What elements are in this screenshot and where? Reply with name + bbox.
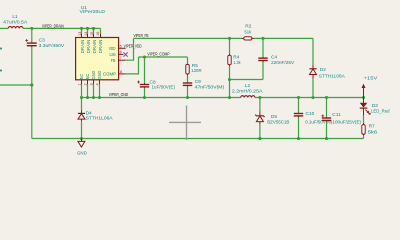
junction rail pin2 — [86, 96, 89, 99]
svg-text:8: 8 — [120, 70, 122, 74]
pin LIM right side — [119, 53, 124, 55]
wire COMP corner down to R5 — [187, 57, 189, 64]
capacitor C9 — [183, 82, 192, 87]
junction C8 top — [143, 55, 146, 58]
junction rail C10 — [297, 96, 300, 99]
inductor L2 — [241, 96, 255, 98]
capacitor C4 — [258, 57, 267, 62]
svg-text:DRAIN: DRAIN — [80, 40, 85, 54]
wire C8 bottom to rail — [144, 88, 146, 97]
wire D4 bottom to bottom rail — [81, 121, 83, 138]
junction C11 bottom rail — [325, 137, 328, 140]
op-amp U1 VIPer26LD body — [76, 38, 119, 80]
wire bottom pin 3 to rail — [93, 84, 95, 98]
wire C11 bottom to bottom rail — [326, 122, 328, 139]
wire C3 top — [31, 28, 33, 41]
svg-text:NC: NC — [79, 74, 84, 80]
wire D2 column upper — [312, 38, 314, 64]
svg-text:47uH/0.5A: 47uH/0.5A — [3, 20, 28, 26]
svg-text:2.2mH/0.25A: 2.2mH/0.25A — [232, 89, 263, 95]
svg-text:C9: C9 — [195, 79, 201, 85]
wire R7 bottom to bottom rail — [363, 136, 365, 139]
svg-text:VIPER_DRAIN: VIPER_DRAIN — [42, 23, 64, 28]
pin numbers top pins — [78, 32, 100, 36]
svg-text:GND: GND — [97, 71, 102, 80]
svg-text:100uF/25V(E): 100uF/25V(E) — [332, 120, 361, 126]
junction rail D5 — [258, 96, 261, 99]
diode D4 — [78, 111, 85, 122]
wire C4 bottom — [262, 62, 264, 80]
resistor R4 — [228, 54, 231, 67]
svg-text:COMP: COMP — [103, 72, 116, 77]
svg-text:47nF/50V(M): 47nF/50V(M) — [195, 84, 225, 90]
wire R2 right to D2 corner — [254, 37, 313, 39]
svg-text:LED_Red: LED_Red — [371, 109, 390, 115]
junction rail C9 — [186, 96, 189, 99]
pin stubs top DRAIN pins — [82, 34, 101, 38]
wire VIPER_DRAIN bus — [23, 27, 101, 29]
svg-text:STTH1L06A: STTH1L06A — [86, 115, 114, 121]
LED D3 — [360, 98, 370, 116]
svg-text:R7: R7 — [369, 124, 375, 130]
wire riser drain pin 4 — [100, 28, 102, 34]
junction R4 top — [228, 37, 231, 40]
junction drain riser 3 — [92, 27, 95, 30]
wire input return — [0, 84, 32, 86]
wire VIPER_COMP horizontal — [139, 56, 188, 58]
junction D5 bottom rail — [258, 137, 261, 140]
pin names DRAIN inside IC — [80, 40, 103, 54]
svg-text:220nF/25V: 220nF/25V — [271, 60, 295, 66]
power symbol +15V — [362, 84, 366, 98]
resistor R7 — [362, 123, 365, 136]
svg-text:FB: FB — [111, 58, 116, 63]
junction rail pin3 — [92, 96, 95, 99]
resistor R5 — [186, 64, 189, 76]
junction rail +15V — [362, 96, 365, 99]
svg-text:R2: R2 — [245, 24, 251, 30]
junction at C3 top — [30, 27, 33, 30]
capacitor C8 — [137, 81, 149, 89]
svg-text:D3: D3 — [372, 103, 378, 109]
no-connect X on LIM — [124, 52, 128, 56]
junction rail R4 — [228, 96, 231, 99]
svg-text:VDD: VDD — [109, 46, 116, 51]
svg-text:5: 5 — [120, 45, 122, 49]
wire LED to R7 — [363, 116, 365, 123]
wire D2 bottom to rail — [312, 79, 314, 98]
wire VIPER_FB horizontal to R2 — [134, 37, 242, 39]
wire riser drain pin 1 — [81, 28, 83, 34]
capacitor C3 — [25, 39, 36, 48]
wire bottom pin 2 to rail — [87, 84, 89, 98]
svg-text:C10: C10 — [306, 111, 315, 117]
wire R4 column upper — [229, 38, 231, 53]
wire FB pin to riser — [126, 38, 134, 60]
svg-text:VIPER_VDD: VIPER_VDD — [124, 43, 142, 48]
svg-text:D2: D2 — [320, 67, 326, 73]
wire bottom pin 4 to rail — [99, 84, 101, 98]
wire C10 bottom to bottom rail — [298, 117, 300, 138]
wire C11 column upper — [326, 98, 328, 117]
svg-text:1.3k: 1.3k — [233, 60, 241, 66]
svg-text:DRAIN: DRAIN — [86, 40, 91, 54]
svg-text:DRAIN: DRAIN — [92, 40, 97, 54]
svg-text:16: 16 — [96, 32, 100, 36]
svg-text:VIPer26LD: VIPer26LD — [80, 9, 106, 15]
capacitor C11 — [321, 115, 331, 122]
wire D5 column upper — [259, 98, 261, 112]
wire R4 bottom to rail — [229, 66, 231, 97]
wire C9 bottom to rail — [187, 87, 189, 98]
junction R4/C4 bottom link — [228, 78, 231, 81]
svg-text:13: 13 — [78, 32, 82, 36]
svg-text:DRAIN: DRAIN — [98, 40, 103, 54]
junction rail D2 — [311, 96, 314, 99]
svg-text:GND: GND — [91, 71, 96, 80]
svg-text:STTH1L06A: STTH1L06A — [319, 74, 346, 80]
pin numbers bottom pins — [77, 83, 99, 85]
svg-text:5k6: 5k6 — [368, 129, 378, 135]
wire link R4 to C4 bottom — [230, 79, 264, 81]
junction rail pin1 — [80, 96, 83, 99]
wire +15V rail right part — [255, 97, 364, 99]
svg-text:4: 4 — [95, 83, 99, 85]
wire C4 column upper — [262, 38, 264, 56]
svg-text:14: 14 — [84, 32, 88, 36]
junction drain riser 1 — [80, 27, 83, 30]
pin FB right side — [119, 59, 126, 61]
svg-text:VIPER_FB: VIPER_FB — [134, 33, 149, 38]
svg-text:+15V: +15V — [364, 76, 379, 82]
svg-text:C11: C11 — [332, 112, 341, 118]
junction D4 bottom rail — [80, 137, 83, 140]
junction rail pin4 — [98, 96, 101, 99]
crosshair cursor — [169, 106, 201, 141]
junction input return on C3 wire — [30, 83, 33, 86]
svg-text:NC: NC — [85, 74, 90, 80]
svg-text:L1: L1 — [12, 14, 18, 20]
ground symbol — [78, 139, 85, 148]
svg-text:BZV55C1B: BZV55C1B — [267, 120, 289, 126]
svg-text:1uF/50V(E): 1uF/50V(E) — [152, 84, 176, 90]
wire C8 column upper — [144, 57, 146, 83]
wire D5 bottom to bottom rail — [259, 125, 261, 139]
wire COMP pin to riser — [126, 57, 139, 74]
wire riser drain pin 3 — [93, 28, 95, 34]
svg-text:1: 1 — [77, 83, 81, 85]
junction C4 top — [261, 37, 264, 40]
wire C3 bottom to bottom rail — [31, 48, 33, 139]
svg-text:15: 15 — [90, 32, 94, 36]
svg-text:LIM: LIM — [110, 52, 116, 57]
svg-text:120R: 120R — [191, 68, 202, 74]
cut label fragment left edge lower — [0, 70, 2, 72]
svg-text:6: 6 — [120, 50, 122, 54]
pin stubs bottom GND pins — [82, 80, 100, 84]
wire bottom rail — [32, 138, 364, 140]
junction C10 bottom rail — [297, 137, 300, 140]
svg-text:D5: D5 — [271, 114, 277, 120]
wire top input left of L1 — [0, 27, 8, 29]
junction rail C11 — [325, 96, 328, 99]
svg-text:7: 7 — [120, 56, 122, 60]
wire R5 to C9 — [187, 76, 189, 82]
capacitor C10 — [294, 112, 303, 117]
pin VDD right side — [119, 47, 126, 49]
inductor L1 — [8, 27, 23, 29]
cut label fragment left edge upper — [0, 48, 2, 50]
junction rail C8 — [143, 96, 146, 99]
svg-text:51k: 51k — [244, 29, 251, 35]
svg-text:3: 3 — [89, 83, 93, 85]
wire C10 column upper — [298, 98, 300, 113]
wire D4 column upper — [81, 98, 83, 111]
svg-text:2: 2 — [83, 83, 87, 85]
junction drain riser 2 — [86, 27, 89, 30]
svg-text:GND: GND — [77, 151, 87, 157]
pin names bottom inside IC — [79, 71, 102, 80]
svg-text:C4: C4 — [271, 54, 277, 60]
diode D2 — [309, 65, 316, 79]
resistor R2 — [241, 37, 254, 40]
pin COMP right side — [119, 73, 126, 75]
zener diode D5 — [255, 111, 264, 124]
svg-text:3.3uF/450V: 3.3uF/450V — [39, 43, 65, 49]
svg-text:VIPER_GND: VIPER_GND — [109, 92, 128, 97]
svg-text:VIPER_COMP: VIPER_COMP — [147, 52, 169, 57]
svg-text:L2: L2 — [245, 83, 251, 89]
svg-text:R4: R4 — [233, 54, 239, 60]
wire riser drain pin 2 — [87, 28, 89, 34]
wire switch-node rail left part — [82, 97, 241, 99]
svg-text:C3: C3 — [39, 38, 45, 44]
wire bottom pin 1 to rail — [81, 84, 83, 98]
